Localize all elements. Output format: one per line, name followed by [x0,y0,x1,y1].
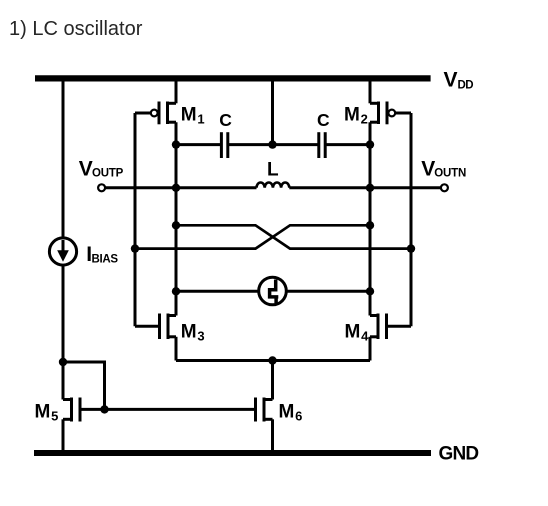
node: M5 gate [100,405,108,413]
wire: cross-couple line B (left gate line to M2 drain) [135,225,370,248]
svg-text:OUTN: OUTN [434,167,466,179]
svg-text:DD: DD [458,80,474,92]
svg-text:M: M [181,104,197,125]
node: M5 drain [59,358,67,366]
terminal VOUTN [441,184,448,191]
wire: tail to M6 drain [271,361,274,400]
label IBIAS [86,243,118,266]
transistor M2 (PMOS) [370,102,395,125]
wire: M5 drain tap to gate [63,362,105,409]
label M3 [181,321,205,343]
wire: differential pair tail [176,359,370,362]
noise current source (circle with bolt) [259,277,287,305]
svg-text:BIAS: BIAS [92,254,119,266]
wire: noise-source row right [286,290,370,293]
wire: left gate line vertical (M1/M3 gates) [134,113,137,326]
svg-text:M: M [344,104,360,125]
svg-text:GND: GND [439,443,479,464]
wire: gate bus M5 to M6 [80,408,256,411]
svg-text:M: M [181,321,197,342]
label VDD [444,69,474,92]
node: noise right [366,287,374,295]
terminal VOUTP [98,184,105,191]
wire: M2 source to VDD [369,78,372,103]
node: right cap junction [366,140,374,148]
wire: middle vertical VDD to cap midpoint [271,78,274,145]
label M2 [344,104,368,126]
wire: cross-couple line A (M1 drain to right gate line) [176,225,411,248]
svg-text:V: V [79,158,93,181]
svg-text:OUTP: OUTP [92,167,124,179]
wire: M1 gate to left gate line [135,112,151,115]
label M5 [35,401,59,423]
wire: inductor to right tank node [289,186,370,189]
wire: M5 source to GND [62,419,65,453]
label M6 [279,401,303,423]
transistor M3 (NMOS) [160,314,177,340]
svg-text:C: C [219,110,232,130]
svg-text:L: L [267,160,279,181]
wire: VOUTP to left tank node [105,186,176,189]
svg-text:4: 4 [361,329,369,344]
node: cross A left [172,221,180,229]
transistor M4 (NMOS) [370,314,387,340]
node: left cap junction [172,140,180,148]
node: cross A right [407,244,415,252]
wire: right gate line vertical (M2/M4 gates) [410,113,413,326]
wire: left tank node to inductor [176,186,257,189]
wire: right tank vertical M2 drain down to M4 drain [369,122,372,315]
wire: noise-source row left [176,290,259,293]
wire: M3 source down [175,337,178,361]
svg-text:V: V [444,69,458,92]
node: noise left [172,287,180,295]
VDD rail [35,75,431,81]
current source IBIAS [49,238,76,265]
svg-text:V: V [421,158,435,181]
label M4 [345,321,370,343]
wire: M2 gate to right gate line [395,112,411,115]
capacitor C (right) [319,132,325,158]
transistor M6 (NMOS) [256,398,273,422]
inductor L [257,182,290,187]
wire: M4 source down [369,337,372,361]
svg-text:5: 5 [51,409,58,424]
svg-text:C: C [317,110,330,130]
label VOUTN [421,158,466,181]
node: cross B right [366,221,374,229]
label VOUTP [79,158,124,181]
wire: cap row middle-left segment [228,143,319,146]
wire: M6 source to GND [271,419,274,453]
transistor M5 (NMOS, mirrored) [63,398,80,422]
wire: M3 gate stub [135,325,160,328]
svg-text:M: M [279,401,295,422]
wire: left tank vertical M1 drain down to M3 drain [175,122,178,315]
svg-text:3: 3 [197,329,204,344]
wire: M1 source to VDD [175,78,178,103]
wire: bias vertical from current source to M5 drain [62,265,65,400]
svg-text:2: 2 [361,112,368,127]
node: cap midpoint [268,140,276,148]
wire: M4 gate stub [387,325,412,328]
svg-text:M: M [35,401,51,422]
node dots [59,140,415,413]
wire: cap row right segment [325,143,370,146]
wire: bias vertical from VDD to current source [62,78,65,238]
wire: right tank node to VOUTN terminal [370,186,441,189]
wire: cap row left segment [176,143,221,146]
node: VOUTN tank [366,184,374,192]
node: VOUTP tank [172,184,180,192]
GND rail [34,450,431,456]
svg-text:M: M [345,321,361,342]
node: cross B left [131,244,139,252]
svg-text:1) LC oscillator: 1) LC oscillator [9,18,143,40]
svg-text:1: 1 [197,112,204,127]
capacitor C (left) [221,132,227,158]
svg-text:6: 6 [295,409,302,424]
label M1 [181,104,205,126]
transistor M1 (PMOS) [151,102,176,125]
node: tail center [268,356,276,364]
